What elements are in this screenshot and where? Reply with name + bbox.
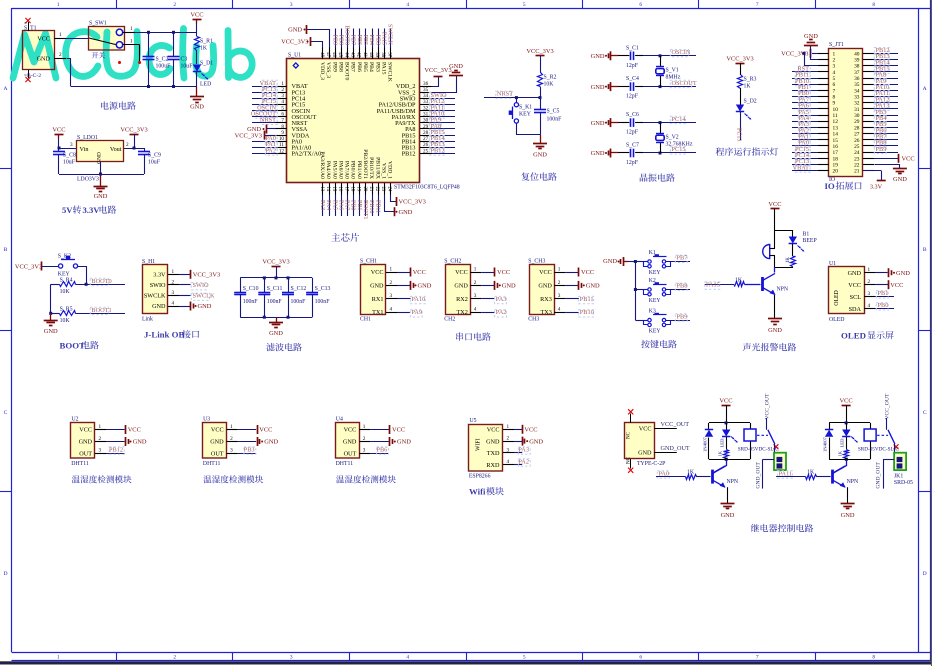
svg-text:1: 1 [868, 267, 871, 273]
svg-text:S_C11: S_C11 [267, 286, 283, 292]
svg-text:34: 34 [854, 88, 860, 94]
svg-text:PB8: PB8 [337, 62, 343, 72]
svg-text:31: 31 [854, 107, 860, 113]
svg-text:BOOT1: BOOT1 [91, 307, 111, 314]
svg-text:GND: GND [841, 512, 855, 519]
svg-text:3: 3 [558, 293, 561, 299]
svg-text:1: 1 [57, 2, 60, 8]
svg-text:VCC: VCC [371, 269, 384, 276]
svg-text:NPN: NPN [727, 479, 739, 485]
svg-text:GND: GND [418, 283, 432, 290]
svg-text:VCC: VCC [848, 282, 861, 289]
svg-text:3: 3 [70, 142, 73, 148]
svg-text:21: 21 [368, 187, 373, 192]
svg-text:4: 4 [833, 70, 836, 76]
svg-text:GND: GND [370, 283, 384, 290]
svg-text:3: 3 [868, 291, 871, 297]
svg-text:PB4: PB4 [368, 35, 374, 45]
svg-text:4: 4 [406, 2, 409, 8]
svg-text:VCC: VCC [259, 427, 272, 434]
svg-text:GND: GND [768, 327, 782, 334]
svg-text:C: C [923, 410, 927, 416]
svg-text:17: 17 [833, 150, 839, 156]
svg-text:3: 3 [230, 448, 233, 454]
svg-text:S_V2: S_V2 [666, 134, 679, 140]
svg-text:10: 10 [279, 136, 285, 142]
svg-text:KEY: KEY [649, 270, 662, 276]
svg-text:100nF: 100nF [315, 299, 331, 305]
svg-text:GND: GND [848, 270, 862, 277]
svg-text:GND: GND [603, 258, 617, 265]
svg-text:PA15: PA15 [380, 62, 386, 75]
svg-text:VCC_3V3: VCC_3V3 [193, 272, 220, 279]
svg-text:VCC: VCC [79, 427, 92, 434]
svg-text:28: 28 [854, 125, 860, 131]
svg-text:1K: 1K [718, 450, 723, 456]
svg-text:39: 39 [854, 57, 860, 63]
svg-text:VCC_3V3: VCC_3V3 [235, 132, 262, 139]
svg-text:KEY: KEY [519, 112, 532, 118]
svg-text:GND: GND [198, 303, 212, 310]
svg-text:43: 43 [350, 52, 355, 57]
svg-text:S_C8: S_C8 [63, 153, 76, 159]
svg-text:11: 11 [279, 142, 284, 148]
svg-text:VCC: VCC [719, 398, 732, 405]
svg-text:19: 19 [833, 162, 839, 168]
svg-text:S_C2: S_C2 [156, 56, 169, 62]
svg-text:PA15: PA15 [706, 281, 720, 288]
svg-text:SRD-05: SRD-05 [894, 480, 913, 486]
svg-text:15: 15 [833, 138, 839, 144]
svg-text:38: 38 [380, 52, 385, 57]
svg-text:RX1: RX1 [372, 296, 384, 303]
svg-text:30: 30 [854, 113, 860, 119]
svg-text:2: 2 [173, 654, 176, 660]
svg-text:29: 29 [423, 124, 429, 130]
svg-text:PB7: PB7 [350, 35, 356, 45]
svg-text:GND: GND [288, 27, 302, 34]
svg-text:1: 1 [363, 424, 366, 430]
svg-text:VSS_3: VSS_3 [325, 62, 331, 78]
svg-text:NC: NC [627, 431, 632, 439]
svg-text:LDO3V3: LDO3V3 [77, 177, 99, 183]
svg-text:VCC_3V3: VCC_3V3 [15, 263, 42, 270]
svg-text:GND: GND [397, 439, 411, 446]
svg-text:BOOT0: BOOT0 [344, 62, 350, 80]
svg-text:46: 46 [331, 52, 336, 57]
svg-text:30: 30 [423, 118, 429, 124]
svg-text:PB6: PB6 [356, 35, 362, 45]
svg-text:PB5: PB5 [362, 62, 368, 72]
svg-text:K2: K2 [649, 278, 656, 284]
svg-text:3: 3 [507, 447, 510, 453]
svg-text:GND: GND [97, 152, 103, 164]
svg-text:VCC: VCC [840, 398, 853, 405]
svg-text:PB11/RX: PB11/RX [374, 157, 380, 179]
svg-text:27: 27 [854, 132, 860, 138]
svg-text:OLED: OLED [829, 317, 844, 323]
svg-text:LED: LED [720, 438, 725, 448]
svg-text:PB9: PB9 [677, 313, 688, 320]
svg-text:PA7: PA7 [344, 200, 350, 210]
svg-text:S_LDO1: S_LDO1 [77, 135, 98, 141]
svg-text:37: 37 [854, 70, 860, 76]
svg-text:2: 2 [558, 280, 561, 286]
svg-text:C: C [4, 410, 8, 416]
svg-text:41: 41 [362, 52, 367, 57]
svg-text:3.3V: 3.3V [83, 205, 101, 215]
svg-text:S_C13: S_C13 [315, 286, 331, 292]
svg-text:GND_OUT: GND_OUT [756, 462, 762, 489]
svg-text:VCC_3V3: VCC_3V3 [281, 39, 308, 46]
svg-text:4: 4 [558, 307, 561, 313]
svg-text:VCC: VCC [413, 269, 426, 276]
svg-text:1: 1 [833, 51, 836, 57]
svg-text:TX2: TX2 [456, 309, 467, 316]
svg-text:S_R5: S_R5 [60, 306, 73, 312]
svg-text:GND: GND [343, 439, 357, 446]
svg-text:J-Link OB: J-Link OB [144, 330, 184, 340]
svg-text:RX3: RX3 [540, 296, 552, 303]
svg-text:VCC: VCC [190, 12, 203, 19]
svg-text:35: 35 [423, 87, 429, 93]
svg-text:PA7/A0: PA7/A0 [344, 161, 350, 179]
svg-text:PB6: PB6 [356, 62, 362, 72]
svg-text:8: 8 [872, 654, 875, 660]
svg-text:6: 6 [833, 82, 836, 88]
svg-text:27: 27 [423, 136, 429, 142]
svg-text:33: 33 [854, 95, 860, 101]
svg-text:3: 3 [99, 448, 102, 454]
svg-text:11: 11 [833, 113, 838, 119]
svg-text:S_C1: S_C1 [626, 45, 639, 51]
svg-text:15: 15 [331, 187, 336, 192]
svg-text:VCC: VCC [524, 427, 537, 434]
svg-text:2: 2 [281, 87, 284, 93]
svg-text:10K: 10K [60, 289, 71, 295]
svg-text:GND: GND [529, 438, 543, 445]
svg-text:PA15: PA15 [380, 32, 386, 45]
svg-text:PA3: PA3 [518, 447, 529, 454]
svg-text:3: 3 [833, 64, 836, 70]
svg-text:NC: NC [627, 456, 632, 464]
svg-text:VCC: VCC [392, 427, 405, 434]
svg-text:2: 2 [868, 279, 871, 285]
svg-text:SWCLK: SWCLK [193, 293, 215, 300]
svg-text:GND: GND [804, 33, 818, 40]
svg-text:B: B [4, 247, 8, 253]
svg-text:44: 44 [343, 52, 348, 57]
svg-text:VCC_OUT: VCC_OUT [765, 393, 771, 419]
svg-text:TX3: TX3 [540, 309, 551, 316]
svg-text:2: 2 [363, 436, 366, 442]
svg-text:GND: GND [591, 53, 605, 60]
svg-text:24: 24 [386, 187, 391, 192]
svg-text:VCC_3V3: VCC_3V3 [424, 67, 451, 74]
svg-text:VCC: VCC [539, 269, 552, 276]
svg-text:S_U1: S_U1 [288, 53, 301, 59]
svg-text:PA2: PA2 [265, 147, 276, 154]
svg-text:CH2: CH2 [444, 316, 455, 322]
svg-text:100nF: 100nF [291, 299, 307, 305]
svg-text:VSS_1: VSS_1 [380, 163, 386, 179]
svg-text:D: D [3, 571, 7, 577]
svg-text:14: 14 [833, 132, 839, 138]
svg-text:3: 3 [281, 93, 284, 99]
svg-text:PB2/BOOT1: PB2/BOOT1 [362, 149, 368, 179]
svg-text:1K: 1K [687, 470, 695, 476]
svg-text:S_JT1: S_JT1 [829, 42, 844, 48]
svg-text:2: 2 [833, 57, 836, 63]
svg-text:PB7: PB7 [677, 255, 688, 262]
svg-text:1: 1 [172, 269, 175, 275]
svg-text:NPN: NPN [847, 479, 859, 485]
svg-text:12pF: 12pF [626, 94, 639, 100]
svg-text:GND: GND [94, 193, 108, 200]
svg-text:4: 4 [390, 307, 393, 313]
svg-text:VCC_3V3: VCC_3V3 [399, 199, 426, 206]
svg-text:VDD_1: VDD_1 [387, 161, 393, 179]
svg-text:PA3/RX/A0: PA3/RX/A0 [319, 151, 325, 179]
svg-text:VCC: VCC [37, 35, 50, 42]
svg-text:GND: GND [133, 439, 147, 446]
svg-text:12pF: 12pF [626, 63, 639, 69]
svg-text:KEY: KEY [649, 298, 662, 304]
svg-text:7: 7 [833, 88, 836, 94]
svg-text:NRST: NRST [260, 117, 276, 124]
svg-text:SDA: SDA [849, 306, 862, 313]
svg-text:PB5: PB5 [362, 35, 368, 45]
svg-text:12: 12 [833, 119, 839, 125]
svg-text:PA3: PA3 [496, 296, 507, 303]
svg-text:13: 13 [319, 187, 324, 192]
svg-text:5: 5 [833, 76, 836, 82]
svg-text:VCC: VCC [497, 269, 510, 276]
svg-text:PB4: PB4 [368, 62, 374, 72]
svg-text:B: B [923, 247, 927, 253]
svg-text:DHT11: DHT11 [336, 461, 354, 467]
svg-text:34: 34 [423, 93, 429, 99]
svg-text:NPN: NPN [777, 287, 789, 293]
svg-text:S_C5: S_C5 [547, 109, 560, 115]
svg-text:BOOT0: BOOT0 [344, 26, 350, 45]
svg-text:40: 40 [368, 52, 373, 57]
svg-text:S_V1: S_V1 [666, 68, 679, 74]
svg-text:3.3V: 3.3V [870, 184, 883, 191]
svg-text:K3: K3 [649, 308, 656, 314]
svg-text:SWIO: SWIO [150, 282, 166, 289]
svg-text:S_CH2: S_CH2 [444, 259, 461, 265]
svg-text:K1: K1 [649, 250, 656, 256]
svg-text:26: 26 [423, 142, 429, 148]
svg-text:PC14: PC14 [672, 116, 687, 123]
svg-text:o: o [25, 20, 27, 25]
svg-text:33: 33 [423, 99, 429, 105]
svg-text:PC13: PC13 [736, 128, 742, 141]
svg-text:S_C10: S_C10 [243, 286, 259, 292]
svg-text:ESP8266: ESP8266 [469, 474, 491, 480]
svg-text:1: 1 [59, 32, 62, 38]
svg-text:OUT: OUT [344, 450, 357, 457]
svg-text:2: 2 [99, 436, 102, 442]
svg-text:7: 7 [281, 118, 284, 124]
svg-text:12pF: 12pF [626, 160, 639, 166]
svg-text:1: 1 [130, 39, 133, 45]
svg-text:8MHz: 8MHz [666, 75, 681, 81]
svg-text:PB0: PB0 [350, 200, 356, 210]
svg-text:TXD: TXD [487, 450, 500, 457]
svg-text:VCC_OUT: VCC_OUT [661, 421, 690, 428]
svg-text:A: A [3, 86, 7, 92]
svg-text:U4: U4 [336, 417, 343, 423]
svg-text:S_C12: S_C12 [291, 286, 307, 292]
svg-text:1: 1 [230, 424, 233, 430]
svg-text:BOOT1: BOOT1 [362, 200, 368, 219]
svg-text:1K: 1K [744, 84, 752, 90]
svg-text:100nF: 100nF [547, 117, 563, 123]
svg-text:PA2/TX/A0: PA2/TX/A0 [292, 151, 322, 158]
svg-text:U3: U3 [203, 417, 210, 423]
svg-text:GND_OUT: GND_OUT [661, 445, 690, 452]
svg-text:SWCLK: SWCLK [144, 293, 166, 300]
svg-text:3: 3 [474, 293, 477, 299]
svg-text:S_R2: S_R2 [544, 75, 557, 81]
svg-text:GND: GND [721, 512, 735, 519]
svg-text:GND: GND [502, 283, 516, 290]
svg-text:PB10: PB10 [368, 200, 374, 213]
svg-text:31: 31 [423, 112, 429, 118]
svg-text:SRD-05VDC-SL-C: SRD-05VDC-SL-C [738, 446, 779, 452]
svg-text:TX1: TX1 [372, 309, 383, 316]
svg-text:Wifi: Wifi [469, 487, 486, 497]
svg-text:OSCOUT: OSCOUT [672, 80, 697, 87]
svg-text:1: 1 [130, 26, 133, 32]
svg-text:VCC: VCC [211, 427, 224, 434]
svg-text:1: 1 [474, 267, 477, 273]
svg-text:2: 2 [230, 436, 233, 442]
svg-text:S_C7: S_C7 [626, 143, 639, 149]
svg-text:CH3: CH3 [528, 316, 539, 322]
svg-text:S_R1: S_R1 [200, 39, 213, 45]
svg-text:PA6/A0: PA6/A0 [337, 161, 343, 179]
svg-text:21: 21 [854, 169, 860, 175]
svg-text:WIFI: WIFI [476, 438, 482, 451]
svg-text:PA5: PA5 [331, 200, 337, 210]
svg-text:GND: GND [152, 303, 166, 310]
svg-text:8: 8 [872, 2, 875, 8]
svg-text:10uF: 10uF [63, 160, 76, 166]
svg-text:PB12: PB12 [109, 446, 123, 453]
svg-text:1K: 1K [838, 450, 843, 456]
svg-text:2: 2 [474, 280, 477, 286]
svg-text:25: 25 [854, 144, 860, 150]
svg-text:S_T1: S_T1 [24, 26, 37, 32]
svg-text:GND: GND [638, 450, 652, 457]
svg-text:SWIO: SWIO [193, 282, 210, 289]
svg-text:VCC: VCC [344, 427, 357, 434]
svg-text:20: 20 [833, 169, 839, 175]
svg-text:23: 23 [854, 156, 860, 162]
svg-text:14: 14 [325, 187, 330, 192]
svg-text:S_CH3: S_CH3 [528, 259, 545, 265]
svg-text:U2: U2 [72, 417, 79, 423]
svg-text:PB9: PB9 [331, 62, 337, 72]
svg-text:GND: GND [449, 63, 463, 70]
svg-text:3: 3 [363, 448, 366, 454]
svg-text:16: 16 [337, 187, 342, 192]
svg-text:U5: U5 [470, 418, 477, 424]
svg-text:VCC_3V3: VCC_3V3 [262, 259, 289, 266]
svg-text:1: 1 [99, 424, 102, 430]
svg-text:1K: 1K [200, 46, 208, 52]
svg-text:100nF: 100nF [267, 299, 283, 305]
svg-text:36: 36 [423, 81, 429, 87]
svg-text:PB1: PB1 [356, 200, 362, 210]
svg-text:16: 16 [833, 144, 839, 150]
svg-text:20: 20 [362, 187, 367, 192]
svg-text:2: 2 [390, 280, 393, 286]
svg-text:24: 24 [854, 150, 860, 156]
svg-text:10K: 10K [544, 82, 555, 88]
svg-text:S_H1: S_H1 [142, 259, 155, 265]
svg-text:B-C-2: B-C-2 [27, 73, 41, 79]
svg-text:4: 4 [507, 459, 510, 465]
svg-text:BEEP: BEEP [803, 238, 817, 244]
svg-text:PA5/A0: PA5/A0 [331, 161, 337, 179]
svg-text:PB0: PB0 [878, 302, 889, 309]
svg-text:GND: GND [533, 152, 547, 159]
svg-text:5V: 5V [62, 205, 73, 215]
svg-text:32: 32 [423, 105, 429, 111]
svg-text:SCL: SCL [850, 294, 862, 301]
svg-text:GND: GND [454, 283, 468, 290]
svg-text:4: 4 [281, 99, 284, 105]
svg-text:25: 25 [423, 148, 429, 154]
svg-text:PB9: PB9 [876, 146, 887, 153]
svg-text:GND: GND [538, 283, 552, 290]
svg-text:SWCLK: SWCLK [387, 24, 393, 46]
svg-text:JK1: JK1 [894, 473, 903, 479]
svg-text:35: 35 [854, 82, 860, 88]
svg-text:GND: GND [190, 104, 204, 111]
svg-text:38: 38 [854, 64, 860, 70]
svg-text:PB11: PB11 [580, 296, 594, 303]
svg-text:GND: GND [264, 439, 278, 446]
svg-text:GND: GND [79, 439, 93, 446]
svg-text:PA2: PA2 [518, 458, 529, 465]
svg-text:C3: C3 [181, 56, 188, 62]
svg-text:7: 7 [756, 2, 759, 8]
svg-text:19: 19 [356, 187, 361, 192]
svg-text:PA4/A0: PA4/A0 [325, 161, 331, 179]
svg-text:B1: B1 [803, 232, 810, 238]
svg-text:1K: 1K [807, 470, 815, 476]
svg-text:VCC_OUT: VCC_OUT [885, 393, 891, 419]
svg-text:VCC_3V3: VCC_3V3 [120, 127, 147, 134]
svg-text:OLED: OLED [841, 331, 866, 341]
svg-text:10: 10 [833, 107, 839, 113]
svg-text:10uF: 10uF [148, 160, 161, 166]
svg-text:S_D1: S_D1 [200, 61, 213, 67]
svg-text:22: 22 [374, 187, 379, 192]
svg-text:S_R4: S_R4 [60, 277, 73, 283]
svg-text:Link: Link [142, 316, 153, 322]
svg-text:7: 7 [756, 654, 759, 660]
svg-text:PB7: PB7 [350, 62, 356, 72]
svg-text:PA10: PA10 [412, 296, 426, 303]
svg-text:29: 29 [854, 119, 860, 125]
svg-text:39: 39 [374, 52, 379, 57]
